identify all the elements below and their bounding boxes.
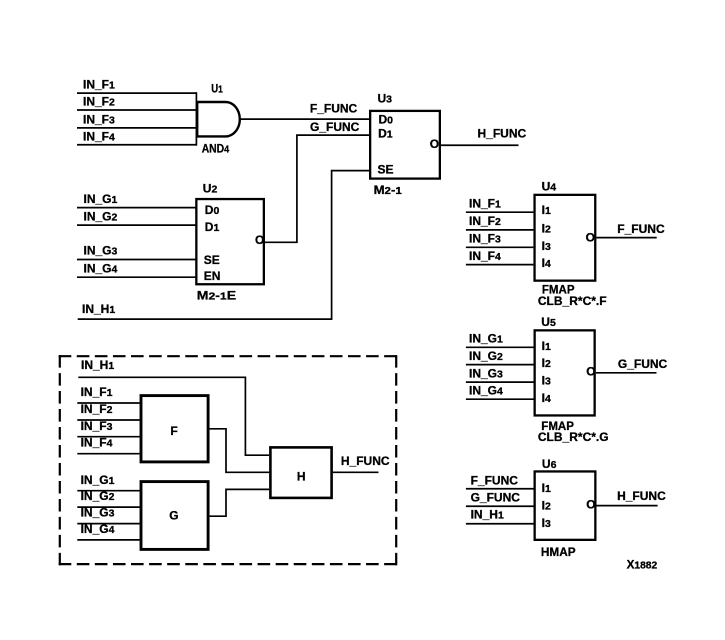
svg-text:IN_F1: IN_F1 bbox=[81, 385, 113, 399]
svg-text:CLB_R*C*.G: CLB_R*C*.G bbox=[538, 430, 609, 444]
svg-text:IN_F2: IN_F2 bbox=[81, 402, 113, 416]
wire IN_F1 to U4 I1 bbox=[466, 211, 534, 213]
HMAP U6 box bbox=[535, 471, 596, 539]
wire IN_F4 to F bbox=[77, 453, 139, 455]
wire U5 output G_FUNC bbox=[596, 372, 657, 374]
svg-text:IN_F3: IN_F3 bbox=[83, 113, 115, 127]
dashed CLB boundary box top edge bbox=[59, 355, 398, 357]
svg-text:G: G bbox=[169, 508, 178, 522]
svg-text:U5: U5 bbox=[541, 315, 556, 329]
svg-text:IN_G1: IN_G1 bbox=[84, 192, 118, 206]
svg-text:HMAP: HMAP bbox=[541, 545, 576, 559]
svg-text:IN_F2: IN_F2 bbox=[469, 214, 501, 228]
wire U2 output to U3 D1 bbox=[265, 135, 370, 242]
dashed CLB boundary box bottom edge bbox=[59, 563, 398, 565]
svg-text:I1: I1 bbox=[542, 481, 551, 495]
svg-text:IN_G3: IN_G3 bbox=[81, 506, 115, 520]
wire IN_G4 to G bbox=[77, 539, 139, 541]
svg-text:G_FUNC: G_FUNC bbox=[618, 357, 668, 371]
svg-text:I3: I3 bbox=[542, 374, 551, 388]
svg-text:EN: EN bbox=[204, 269, 221, 283]
svg-text:CLB_R*C*.F: CLB_R*C*.F bbox=[538, 294, 607, 308]
svg-text:IN_G3: IN_G3 bbox=[84, 244, 118, 258]
svg-text:IN_G1: IN_G1 bbox=[81, 473, 115, 487]
svg-text:I1: I1 bbox=[542, 203, 551, 217]
svg-text:F: F bbox=[170, 424, 177, 438]
svg-text:IN_F3: IN_F3 bbox=[469, 232, 501, 246]
wire U1 output to U3 D0 bbox=[240, 118, 370, 120]
svg-text:SE: SE bbox=[378, 163, 394, 177]
svg-text:SE: SE bbox=[204, 253, 220, 267]
function block H box bbox=[270, 447, 331, 498]
wire F output to H bbox=[210, 429, 270, 473]
function block G box bbox=[141, 482, 208, 550]
svg-text:F_FUNC: F_FUNC bbox=[471, 474, 519, 488]
wire IN_F2 to U1 bbox=[77, 109, 197, 111]
wire IN_G1 to U5 I1 bbox=[466, 346, 534, 348]
svg-text:I4: I4 bbox=[542, 256, 551, 270]
svg-text:U1: U1 bbox=[211, 82, 223, 96]
wire G output to H bbox=[210, 489, 270, 516]
wire IN_G3 to U5 I3 bbox=[466, 381, 534, 383]
multiplexer U3 box bbox=[370, 111, 440, 179]
svg-text:AND4: AND4 bbox=[202, 142, 230, 156]
wire IN_H1 to U6 I3 bbox=[466, 523, 534, 525]
svg-text:O: O bbox=[586, 230, 595, 244]
function block F box bbox=[141, 396, 208, 462]
svg-text:O: O bbox=[255, 233, 264, 247]
svg-text:D0: D0 bbox=[379, 113, 394, 127]
svg-text:O: O bbox=[586, 498, 595, 512]
svg-text:M2-1E: M2-1E bbox=[197, 288, 236, 302]
wire G_FUNC to U6 I2 bbox=[466, 505, 534, 507]
svg-text:IN_H1: IN_H1 bbox=[81, 358, 114, 372]
wire IN_G2 to U5 I2 bbox=[466, 364, 534, 366]
wire IN_G3 to G bbox=[77, 523, 139, 525]
svg-text:I1: I1 bbox=[542, 339, 551, 353]
wire U6 output H_FUNC bbox=[597, 505, 658, 507]
dashed CLB boundary box left edge bbox=[59, 355, 61, 565]
svg-text:G_FUNC: G_FUNC bbox=[310, 120, 360, 134]
wire IN_F3 to U4 I3 bbox=[466, 246, 534, 248]
wire IN_F4 to U4 I4 bbox=[466, 264, 534, 266]
svg-text:G_FUNC: G_FUNC bbox=[471, 491, 521, 505]
wire IN_F1 to F bbox=[77, 402, 139, 404]
svg-text:O: O bbox=[586, 365, 595, 379]
wire H output H_FUNC bbox=[333, 471, 379, 473]
svg-text:M2-1: M2-1 bbox=[374, 183, 402, 197]
wire IN_G2 to G bbox=[77, 506, 139, 508]
svg-text:I2: I2 bbox=[542, 498, 551, 512]
svg-text:IN_G2: IN_G2 bbox=[84, 209, 118, 223]
svg-text:IN_G2: IN_G2 bbox=[81, 489, 115, 503]
and-gate U1 bbox=[197, 102, 240, 136]
FMAP U5 box bbox=[535, 330, 595, 415]
svg-text:IN_G4: IN_G4 bbox=[469, 384, 503, 398]
svg-text:D1: D1 bbox=[378, 126, 393, 140]
wire IN_G2 to U2 D1 bbox=[77, 224, 196, 226]
svg-text:IN_F4: IN_F4 bbox=[83, 129, 115, 143]
wire IN_G1 to G bbox=[77, 490, 139, 492]
svg-text:IN_G1: IN_G1 bbox=[469, 332, 503, 346]
svg-text:I2: I2 bbox=[542, 356, 551, 370]
input bus of U1 bbox=[195, 92, 197, 145]
svg-text:I3: I3 bbox=[542, 516, 551, 530]
svg-text:I2: I2 bbox=[542, 222, 551, 236]
svg-text:F_FUNC: F_FUNC bbox=[310, 101, 358, 115]
svg-text:IN_F3: IN_F3 bbox=[81, 419, 113, 433]
svg-text:IN_F2: IN_F2 bbox=[83, 95, 115, 109]
svg-text:IN_F4: IN_F4 bbox=[469, 249, 501, 263]
svg-text:IN_G3: IN_G3 bbox=[469, 366, 503, 380]
wire IN_G1 to U2 D0 bbox=[77, 207, 196, 209]
svg-text:U6: U6 bbox=[542, 457, 557, 471]
svg-text:X1882: X1882 bbox=[627, 557, 658, 571]
FMAP U4 box bbox=[535, 195, 596, 281]
svg-text:F_FUNC: F_FUNC bbox=[617, 222, 665, 236]
svg-text:IN_G4: IN_G4 bbox=[84, 261, 118, 275]
wire IN_G4 to U5 I4 bbox=[466, 398, 534, 400]
svg-text:D0: D0 bbox=[205, 203, 220, 217]
svg-text:IN_H1: IN_H1 bbox=[471, 508, 504, 522]
wire IN_F4 to U1 bbox=[77, 144, 197, 146]
svg-text:U2: U2 bbox=[203, 182, 218, 196]
svg-text:IN_G4: IN_G4 bbox=[81, 522, 115, 536]
svg-text:IN_H1: IN_H1 bbox=[82, 302, 115, 316]
svg-text:H: H bbox=[297, 469, 306, 483]
wire IN_G4 to U2 EN bbox=[77, 276, 196, 278]
wire IN_F3 to F bbox=[77, 436, 139, 438]
svg-text:H_FUNC: H_FUNC bbox=[341, 454, 390, 468]
wire U4 output F_FUNC bbox=[596, 237, 656, 239]
svg-text:IN_F4: IN_F4 bbox=[81, 435, 113, 449]
svg-text:D1: D1 bbox=[205, 220, 220, 234]
svg-text:IN_G2: IN_G2 bbox=[469, 349, 503, 363]
svg-text:H_FUNC: H_FUNC bbox=[617, 489, 666, 503]
wire IN_H1 to U3 SE bbox=[78, 171, 370, 320]
wire IN_F2 to U4 I2 bbox=[466, 229, 534, 231]
wire IN_F2 to F bbox=[77, 419, 139, 421]
wire IN_F1 to U1 bbox=[77, 92, 197, 94]
svg-text:H_FUNC: H_FUNC bbox=[478, 127, 527, 141]
dashed CLB boundary box right edge bbox=[395, 355, 397, 565]
wire F_FUNC to U6 I1 bbox=[466, 488, 534, 490]
wire IN_H1 to H block bbox=[78, 377, 269, 455]
svg-text:I4: I4 bbox=[542, 391, 551, 405]
svg-text:U3: U3 bbox=[378, 91, 393, 105]
wire U3 output H_FUNC bbox=[441, 144, 519, 146]
svg-text:IN_F1: IN_F1 bbox=[83, 78, 115, 92]
svg-text:O: O bbox=[430, 137, 439, 151]
svg-text:I3: I3 bbox=[542, 239, 551, 253]
multiplexer U2 box bbox=[196, 199, 264, 284]
svg-text:U4: U4 bbox=[542, 180, 557, 194]
svg-text:IN_F1: IN_F1 bbox=[469, 197, 501, 211]
wire IN_G3 to U2 SE bbox=[77, 259, 196, 261]
wire IN_F3 to U1 bbox=[77, 127, 197, 129]
